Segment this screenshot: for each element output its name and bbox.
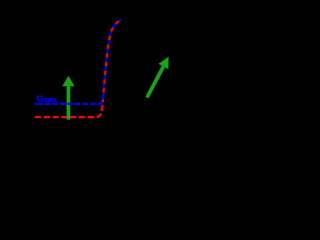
green diagonal arrow shaft [147,67,163,98]
green diagonal arrowhead [159,57,169,69]
green vertical arrowhead [62,76,74,86]
red curve: steep section (shared path, red phase) [103,20,121,98]
blue curve: steep section (shared path, blue phase) [103,20,121,98]
blue left arrowhead [34,102,37,106]
x axis arrowhead [189,153,197,159]
y axis [17,14,19,157]
green vertical arrow shaft [67,86,71,120]
blue dashed level line with knee [38,97,104,104]
x axis [18,155,191,157]
y axis arrowhead [14,8,20,16]
red curve: flat section + knee [35,97,103,117]
